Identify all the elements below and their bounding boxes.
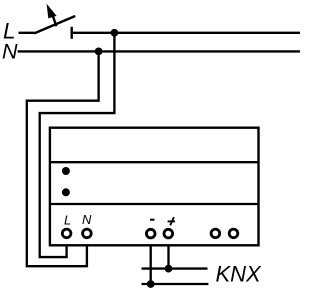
LED indicator dot 1 bbox=[62, 167, 70, 175]
node minus bus junction bbox=[147, 280, 155, 288]
terminal plus bbox=[164, 229, 173, 238]
terminal L bbox=[62, 229, 71, 238]
svg-text:KNX: KNX bbox=[216, 262, 263, 287]
terminal aux 2 bbox=[229, 229, 238, 238]
terminal label minus bbox=[150, 219, 155, 221]
KNX bus line plus bbox=[142, 267, 208, 269]
terminal label plus bbox=[168, 217, 175, 225]
switch S1 blade bbox=[34, 16, 75, 33]
svg-text:N: N bbox=[2, 39, 18, 63]
wire N rail bbox=[18, 50, 300, 52]
switch S1 actuation arrow bbox=[47, 4, 57, 27]
wire minus to KNX bus bbox=[150, 244, 152, 284]
wire L drop to terminal L bbox=[40, 33, 115, 257]
device box U1 bbox=[50, 128, 259, 246]
device panel divider 1 bbox=[50, 161, 259, 163]
node L junction bbox=[111, 29, 119, 37]
switch S1 fixed contact bbox=[70, 27, 72, 39]
LED indicator dot 2 bbox=[62, 188, 70, 196]
terminal N bbox=[83, 229, 92, 238]
device panel divider 2 bbox=[50, 203, 259, 205]
wire L rail left stub bbox=[19, 32, 35, 34]
svg-text:N: N bbox=[82, 212, 92, 227]
wire L rail right segment bbox=[72, 32, 300, 34]
terminal aux 1 bbox=[211, 229, 220, 238]
wire N drop to terminal N bbox=[27, 51, 99, 266]
svg-text:L: L bbox=[64, 213, 71, 228]
wire plus to KNX bus bbox=[167, 244, 169, 268]
KNX bus line minus bbox=[142, 283, 209, 285]
node plus bus junction bbox=[165, 265, 173, 273]
terminal minus bbox=[146, 229, 155, 238]
node N junction bbox=[95, 48, 103, 56]
